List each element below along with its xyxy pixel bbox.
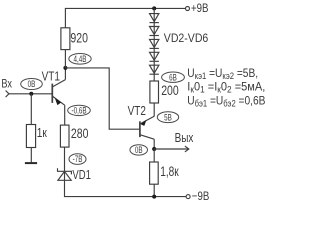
svg-text:0В: 0В xyxy=(135,145,143,155)
svg-text:-0,6В: -0,6В xyxy=(71,105,86,115)
node output junction xyxy=(152,147,156,151)
svg-text:−9В: −9В xyxy=(192,190,209,202)
svg-text:-7В: -7В xyxy=(73,154,83,164)
svg-text:VT1: VT1 xyxy=(42,71,60,84)
svg-text:Вх: Вх xyxy=(1,79,12,91)
svg-text:VT2: VT2 xyxy=(128,105,146,118)
terminal -9V xyxy=(186,195,190,199)
label equation line 3 Ube1=Ube2=0,6V xyxy=(187,95,265,109)
transistor VT1 (NPN) xyxy=(52,80,65,106)
resistor 1k xyxy=(26,125,35,148)
wire output node to R 1,8k xyxy=(153,149,155,162)
voltage callout 5V xyxy=(157,112,178,123)
resistor 200 xyxy=(150,81,159,103)
transistor VT2 (PNP) xyxy=(140,116,154,139)
wire VT2 collector to output node xyxy=(153,139,155,149)
svg-text:+9В: +9В xyxy=(191,2,208,15)
wire input node to R 1k xyxy=(30,94,32,125)
svg-text:4,4В: 4,4В xyxy=(74,54,87,64)
wire VT1 collector up to node xyxy=(64,68,66,80)
wire R200 to VT2 emitter xyxy=(153,103,155,116)
label 1k xyxy=(37,126,48,140)
input terminal chevron xyxy=(6,91,9,98)
svg-text:280: 280 xyxy=(71,126,89,142)
svg-text:1к: 1к xyxy=(37,126,48,140)
label Vyh xyxy=(175,132,194,145)
wire R 1,8k to -9V rail xyxy=(153,184,155,196)
wire R 1k to ground xyxy=(30,148,32,163)
node junction top rail / diode chain xyxy=(152,6,156,10)
node VT1 collector junction xyxy=(63,66,67,70)
node input junction xyxy=(29,92,33,96)
label Vh xyxy=(1,79,12,91)
svg-text:200: 200 xyxy=(161,83,179,99)
wire R280 to VD1 xyxy=(64,147,66,180)
ground xyxy=(25,162,37,164)
diode VD2 xyxy=(150,14,159,23)
wire VT1 emitter to R280 xyxy=(64,105,66,125)
wire output with arrow xyxy=(154,146,189,152)
svg-text:Вых: Вых xyxy=(175,132,194,145)
label equation line 2 Ik01=Ik02=5mA xyxy=(187,81,265,94)
voltage callout -0,6V xyxy=(68,105,91,116)
wire input to VT1 base xyxy=(9,93,52,95)
svg-text:Uбэ1 =Uбэ2 =0,6В: Uбэ1 =Uбэ2 =0,6В xyxy=(187,95,265,109)
diode VD1 zener xyxy=(58,168,72,180)
diode VD4 xyxy=(150,39,159,48)
label VD2-VD6 xyxy=(164,32,208,45)
wire top +9V rail xyxy=(65,8,185,27)
label 200 xyxy=(161,83,179,99)
diode VD6 xyxy=(150,65,159,74)
svg-text:Iк01 =Iк02 =5мА,: Iк01 =Iк02 =5мА, xyxy=(187,81,265,94)
node junction bottom rail xyxy=(152,195,156,199)
wire collector node to VT2 base xyxy=(65,68,139,129)
label VT2 xyxy=(128,105,146,118)
label +9V xyxy=(191,2,208,15)
wire R920 bottom to collector node xyxy=(64,50,66,68)
diode VD5 xyxy=(150,52,159,61)
svg-text:920: 920 xyxy=(70,30,88,46)
label VT1 xyxy=(42,71,60,84)
label 920 xyxy=(70,30,88,46)
wire diode chain vertical xyxy=(153,8,155,81)
label -9V xyxy=(192,190,209,203)
resistor 280 xyxy=(60,125,69,147)
svg-text:Uкэ1 =Uкэ2 =5В,: Uкэ1 =Uкэ2 =5В, xyxy=(187,67,258,81)
label 280 xyxy=(71,126,89,142)
voltage callout -7V xyxy=(69,154,86,165)
voltage callout 6V xyxy=(162,72,185,83)
diode VD3 xyxy=(150,27,159,36)
label 1,8k xyxy=(160,164,179,180)
voltage callout 4,4V xyxy=(69,54,91,65)
svg-text:5В: 5В xyxy=(164,112,172,122)
resistor 920 xyxy=(61,28,70,50)
wire -9V rail xyxy=(65,180,187,196)
voltage callout 0V at output xyxy=(130,145,148,156)
svg-text:1,8к: 1,8к xyxy=(160,164,179,180)
label VD1 xyxy=(72,169,90,183)
svg-text:6В: 6В xyxy=(169,72,177,82)
resistor 1,8k xyxy=(150,162,159,184)
svg-text:0В: 0В xyxy=(28,79,36,89)
svg-text:VD2-VD6: VD2-VD6 xyxy=(164,32,208,45)
svg-text:VD1: VD1 xyxy=(72,169,90,183)
label equation line 1 Uke1=Uke2=5V xyxy=(187,67,258,81)
terminal +9V xyxy=(186,7,190,11)
voltage callout 0V at input xyxy=(21,79,43,90)
